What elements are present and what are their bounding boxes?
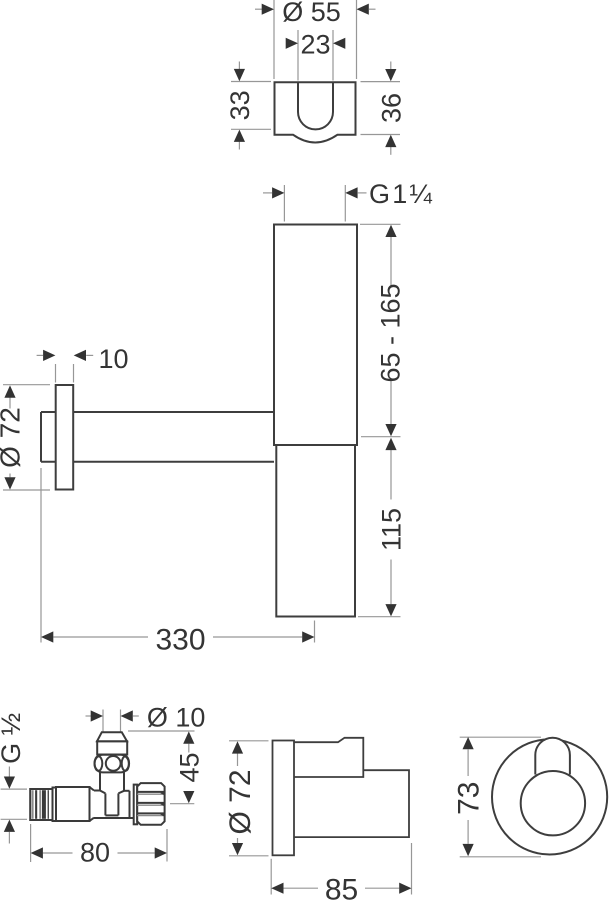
wire dim 65-165 segments [390,237,392,286]
svg-text:330: 330 [155,624,205,657]
wire dim 36 tails [390,62,392,71]
valve passage chamfer right [118,791,124,794]
node arrow 115 bottom [385,604,396,616]
wire ext 23 right [332,30,334,81]
node arrow 65-165 bottom [385,424,396,436]
node arrow 23 left [286,38,298,49]
node arrow Ø72 bottom [4,477,15,489]
trap horizontal pipe bottom [41,461,274,463]
node arrow Ø55 left [262,4,274,15]
valve passage left [104,793,106,815]
valve neck left [99,772,101,790]
wire ext G1/2 bottom [1,818,27,820]
valve body [56,787,90,821]
wire ext 33 top [231,81,271,83]
node arrow G1/2 bottom [4,820,15,832]
wire dim 330 segments [53,636,148,638]
front outer circle [492,739,607,854]
svg-text:65 - 165: 65 - 165 [376,283,406,382]
valve handle center circle [106,756,121,771]
wire ext G1-1/4 right [344,185,346,222]
valve passage right [117,793,119,815]
front inner circle [521,771,585,835]
wire ext 45 top [128,730,195,732]
node arrow 45 top [183,731,194,743]
valve passage bottom [105,814,118,816]
node arrow Ø10 left [91,710,103,721]
valve knob scallop 1 [162,792,164,794]
wire ext 36 bottom [361,134,401,136]
valve handle left dimple [95,756,103,771]
valve knob scallop 2 [162,803,164,805]
wire ext 73 top [460,736,541,738]
trap vertical pipe upper [274,225,357,446]
cup holder outline [275,82,356,142]
valve knob groove 3 [137,812,164,814]
trap horizontal pipe top [41,411,274,413]
valve knob groove 2 [137,802,164,804]
svg-text:33: 33 [225,90,255,120]
node arrow 330 left [41,631,53,642]
wire ext 85 right [411,843,413,895]
wire ext 330 right [314,621,316,643]
valve thread band 1 [32,790,34,819]
node arrow 330 right [302,631,314,642]
wire dim 10 tails [37,354,43,356]
wire ext side Ø72 top [229,740,269,742]
svg-text:80: 80 [80,838,110,868]
front slot [535,738,570,775]
node arrow 73 bottom [463,844,474,856]
node arrow side Ø72 bottom [232,843,243,855]
valve knob scallop 3 [162,813,164,815]
node arrow 23 right [333,38,345,49]
wire ext 330 left [40,468,42,643]
trap wall flange [56,385,73,490]
wire dim 115 segments [390,450,392,500]
wire ext G1/2 top [1,788,27,790]
valve neck right [123,772,125,790]
svg-text:G ½: G ½ [0,713,26,764]
node arrow 80 left [31,847,43,858]
svg-text:Ø 10: Ø 10 [147,702,206,732]
side body block [294,770,409,837]
wire ext 80 left [30,824,32,862]
wire ext Ø10 right [120,710,122,732]
valve thread band 5 [48,790,49,819]
svg-text:10: 10 [98,344,128,374]
valve knob groove 1 [137,791,164,793]
wire ext 115 bottom [358,616,401,618]
svg-text:45: 45 [174,752,204,782]
trap body lower [276,445,355,617]
svg-text:G1¼: G1¼ [369,179,434,209]
svg-text:115: 115 [377,508,407,551]
wire ext 33 bottom [231,128,271,130]
side pipe outline [294,738,363,777]
node arrow 36 bottom [385,135,396,147]
node arrow 85 left [271,883,283,894]
valve handle shell [95,755,129,773]
node arrow side Ø72 top [232,741,243,753]
valve mid block top right [124,790,130,792]
valve thread band 4 [42,790,46,819]
valve knob groove 2 shadow [137,804,164,806]
valve mid block right edge [129,791,131,818]
valve mid block top left [94,790,100,792]
wire ext 23 left [297,30,299,81]
svg-text:Ø 72: Ø 72 [224,769,257,834]
valve bonnet [97,741,127,754]
valve body chamfer top [90,787,95,791]
wire ext 10 right [73,364,75,383]
node arrow 10 left [43,350,55,361]
node arrow G1/2 top [4,777,15,789]
wire dim Ø10 tails [86,715,92,717]
valve mid block bottom [94,817,134,819]
valve knob groove 3 shadow [137,815,164,817]
wire dim 33 tails [238,62,240,71]
wire dim 85 segments [284,887,319,889]
wire ext Ø10 left [102,710,104,732]
wire dim side Ø72 segments [237,753,239,766]
wire dim 73 segments [467,750,469,777]
node arrow 10 right [74,350,86,361]
wire dim 80 segments [43,852,73,854]
valve G1/2 threaded nipple [30,789,52,820]
node arrow G1-1/4 right [345,187,357,198]
node arrow Ø55 right [357,4,369,15]
svg-text:Ø 55: Ø 55 [282,0,341,27]
valve handle right dimple [122,756,129,771]
wire ext Ø55 left [273,0,275,79]
valve collar [53,788,57,822]
wire ext 73 bottom [460,856,541,858]
node arrow 65-165 top [385,225,396,237]
valve thread band 2 [35,790,37,819]
node arrow Ø72 top [4,385,15,397]
svg-text:36: 36 [376,93,406,123]
node arrow G1-1/4 left [272,187,284,198]
wire ext 65-165 top [360,223,401,225]
node arrow 80 right [155,847,167,858]
trap horizontal pipe end cap [40,412,42,462]
wire dim G1/2 tails [8,767,10,777]
wire ext Ø72 bottom [3,489,50,491]
wire dim Ø55 tails [255,8,262,10]
svg-text:73: 73 [452,782,485,815]
valve passage chamfer left [100,791,105,794]
node arrow 85 right [399,883,411,894]
node arrow 33 bottom [234,130,245,142]
node arrow 73 top [463,737,474,749]
valve body chamfer bottom [90,818,95,821]
wire ext 36 top [361,81,401,83]
wire ext 65-165 bottom [361,436,401,438]
valve knob body [137,783,164,825]
node arrow 33 top [234,69,245,81]
node arrow Ø10 right [121,710,133,721]
node arrow 115 top [385,438,396,450]
wire ext Ø55 right [356,0,358,79]
wire ext Ø72 top [3,384,50,386]
wire dim Ø72 segments [9,398,11,409]
node arrow 45 bottom [183,791,194,803]
cup holder inner U [298,82,333,129]
valve cap [97,732,127,741]
valve knob ring [134,785,138,825]
wire ext 10 left [55,364,57,383]
svg-text:85: 85 [325,874,358,900]
wire dim 45 segment [188,744,190,753]
svg-text:23: 23 [300,30,330,60]
node arrow 36 top [385,69,396,81]
wire ext 85 left [270,859,272,895]
wire ext 45 bottom [170,803,194,805]
wire ext G1-1/4 left [283,185,285,222]
wire G1-1/4 tails [263,192,272,194]
wire ext 80 right [166,829,168,862]
valve knob groove 1 shadow [137,793,164,795]
svg-text:Ø 72: Ø 72 [0,407,26,468]
valve thread band 3 [39,790,41,819]
wire ext side Ø72 bottom [229,855,269,857]
side flange plate [273,741,295,856]
